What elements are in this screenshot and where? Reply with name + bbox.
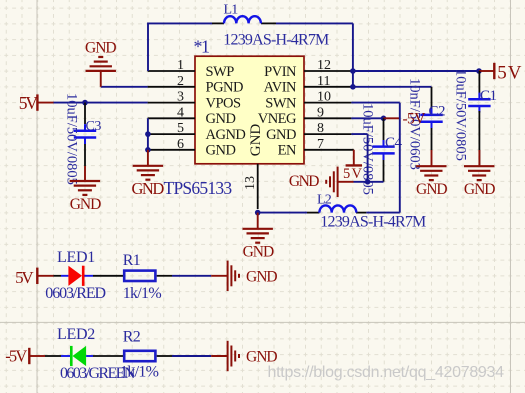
U1 rotated GND label (pin 13 name) (248, 124, 264, 157)
svg-text:V: V (352, 166, 363, 182)
svg-text:-5V: -5V (5, 347, 27, 366)
LED1 diode (68, 266, 83, 286)
svg-text:1k/1%: 1k/1% (120, 363, 159, 380)
svg-text:GND: GND (206, 143, 236, 159)
svg-text:GND: GND (248, 124, 264, 157)
ground C3 (70, 181, 100, 195)
L2 value 1239AS-H-4R7M (320, 213, 426, 230)
LED2 diode (71, 346, 86, 366)
power 5V left (37, 94, 53, 110)
svg-text:1239AS-H-4R7M: 1239AS-H-4R7M (320, 213, 426, 230)
svg-text:L1: L1 (224, 2, 239, 17)
ground LED2 (228, 341, 239, 371)
svg-text:V: V (508, 63, 522, 84)
svg-text:1: 1 (177, 58, 184, 73)
svg-text:9: 9 (317, 105, 324, 120)
pin 1 (148, 58, 195, 73)
U1 part name TPS65133 (164, 178, 233, 198)
gnd stem pins 4-6 (147, 150, 149, 166)
svg-text:8: 8 (317, 121, 324, 136)
svg-text:https://blog.csdn.net/qq_42078: https://blog.csdn.net/qq_42078934 (268, 364, 505, 381)
ground C1 (464, 166, 494, 180)
svg-text:C1: C1 (480, 88, 497, 104)
node C3 tap (82, 100, 88, 106)
R1 value 1k/1% (123, 285, 162, 302)
capacitor C3 (74, 124, 96, 144)
node pin12 (350, 68, 356, 74)
pin 10 (304, 90, 351, 105)
svg-text:GND: GND (132, 179, 165, 198)
watermark (268, 364, 505, 381)
wire pin1 to top rail (148, 23, 213, 72)
pin 3 (148, 90, 195, 105)
GND label C2 (416, 181, 447, 198)
ground pin13 (243, 229, 273, 243)
power -5V stem (384, 117, 400, 119)
svg-text:GND: GND (246, 348, 277, 365)
wire PVIN rail (353, 70, 479, 72)
svg-text:PVIN: PVIN (264, 64, 297, 80)
svg-text:1239AS-H-4R7M: 1239AS-H-4R7M (223, 31, 329, 48)
C3 gnd stem (84, 166, 86, 181)
svg-text:GND: GND (266, 127, 296, 143)
C3 designator (86, 119, 102, 134)
svg-text:5: 5 (177, 121, 184, 136)
gnd stem EN area (338, 181, 354, 183)
wire L2 to pin13 (258, 212, 307, 214)
resistor R2 (124, 351, 155, 361)
pin 5 (148, 121, 195, 136)
5 V label at EN (343, 166, 363, 182)
-5V label LED2 (5, 347, 27, 366)
wire pin9 VNEG (351, 117, 383, 119)
svg-text:GND: GND (70, 196, 101, 213)
svg-text:GND: GND (289, 173, 319, 190)
wire SWN (351, 103, 399, 213)
svg-text:*1: *1 (194, 37, 210, 57)
wire LED1 to R1 (84, 275, 123, 277)
wire R1 to gnd (157, 275, 212, 277)
L2 designator (317, 192, 332, 207)
gnd stem LED2 (211, 355, 227, 357)
svg-text:SWP: SWP (206, 64, 235, 80)
U1 designator *1 (194, 37, 210, 57)
node pin11 (350, 84, 356, 90)
svg-text:C3: C3 (86, 119, 102, 134)
svg-text:10: 10 (317, 90, 331, 105)
inductor L1 (224, 16, 261, 23)
svg-text:EN: EN (278, 143, 297, 159)
5 V label top right (497, 63, 522, 84)
5V label left (19, 93, 39, 113)
svg-text:2: 2 (177, 74, 184, 89)
GND label C1 (464, 181, 495, 198)
power 5V top right (479, 63, 494, 79)
node C1 tap (476, 68, 482, 74)
inductor L2 leads (307, 212, 366, 214)
svg-text:3: 3 (177, 90, 184, 105)
LED1 value 0603/RED (45, 285, 105, 302)
svg-text:4: 4 (177, 105, 184, 120)
ground EN area (326, 167, 337, 197)
R2 value 1k/1% (120, 363, 159, 380)
wire 5V to LED1 (54, 275, 69, 277)
svg-text:LED1: LED1 (57, 249, 95, 266)
C2 lower pin (431, 128, 433, 150)
svg-text:GND: GND (246, 268, 277, 285)
pin 11 (304, 74, 351, 89)
svg-text:11: 11 (317, 74, 330, 89)
svg-text:R2: R2 (123, 329, 141, 346)
GND label EN area (289, 173, 319, 190)
wire LED2 to R2 (86, 355, 123, 357)
wire AVIN link (352, 71, 354, 87)
svg-text:5V: 5V (19, 93, 39, 113)
ground pins 4-6 (133, 166, 163, 180)
wire pins 4-6 (147, 118, 149, 150)
inductor L2 (319, 205, 356, 212)
pin 6 (148, 137, 195, 152)
svg-text:5: 5 (497, 63, 507, 84)
GND label pins 4-6 (132, 179, 165, 198)
capacitor C2 (420, 108, 442, 128)
svg-text:10uF/50V/0805: 10uF/50V/0805 (64, 93, 80, 185)
pin 2 (148, 74, 195, 89)
LED2 designator (57, 326, 95, 343)
wire C4 gnd run (354, 181, 384, 183)
GND label C3 (70, 196, 101, 213)
node pin5 (145, 131, 151, 137)
wire -5V to LED2 (45, 355, 70, 357)
capacitor C1 (468, 93, 490, 113)
-5V label (403, 111, 427, 128)
R1 designator (123, 252, 141, 269)
R2 designator (123, 329, 141, 346)
wire pin3 (54, 102, 148, 104)
svg-text:1k/1%: 1k/1% (123, 285, 162, 302)
svg-text:10uF/50V/0805: 10uF/50V/0805 (453, 69, 469, 161)
L1 designator (224, 2, 239, 17)
pin 4 (148, 105, 195, 120)
inductor L1 leads (212, 22, 276, 24)
pin 9 (304, 105, 351, 120)
C2 value 10nF/50V/0603 (407, 78, 423, 170)
node pin13 (255, 210, 261, 216)
C3 value (64, 93, 80, 185)
op-amp U1 body (TPS65133) (195, 56, 304, 164)
C1 lower pin (478, 111, 480, 166)
C1 gnd stem (478, 150, 480, 166)
svg-text:GND: GND (416, 181, 447, 198)
ground C2 (416, 166, 446, 180)
svg-text:0603/RED: 0603/RED (45, 285, 105, 302)
pin 7 (304, 137, 354, 152)
C4 value (360, 103, 376, 195)
5V label LED1 (15, 268, 34, 287)
svg-text:13: 13 (243, 176, 258, 190)
svg-text:C2: C2 (429, 104, 446, 120)
pin 13 (257, 164, 259, 209)
svg-text:L2: L2 (317, 192, 332, 207)
gnd stem LED1 (211, 275, 227, 277)
svg-text:GND: GND (206, 111, 236, 127)
node pin6 (145, 147, 151, 153)
ground pin2 (flipped) (86, 57, 116, 71)
power 5V LED1 (37, 268, 53, 284)
wire L1 to PVIN column (276, 23, 353, 71)
resistor R1 (124, 271, 155, 281)
power 5V at EN (346, 150, 362, 166)
wire pin2 (101, 86, 148, 88)
wire R2 to gnd (157, 355, 212, 357)
pin 13 number (243, 176, 258, 190)
C4 lower pin (383, 160, 385, 182)
C2 designator (429, 104, 446, 120)
svg-text:R1: R1 (123, 252, 141, 269)
svg-text:VPOS: VPOS (206, 95, 242, 111)
L1 value 1239AS-H-4R7M (223, 31, 329, 48)
pin 12 (304, 58, 351, 73)
pin 8 (304, 121, 351, 136)
GND label LED1 (246, 268, 277, 285)
wire pin8 down (351, 134, 367, 182)
wire AVIN to C2 (353, 87, 432, 109)
svg-text:GND: GND (85, 39, 116, 56)
C3 lower pin (84, 144, 86, 166)
svg-text:5: 5 (343, 166, 350, 182)
svg-text:7: 7 (317, 137, 324, 152)
C4 upper pin (383, 118, 385, 140)
GND label pin13 (243, 244, 274, 261)
C2 gnd stem (431, 150, 433, 166)
svg-text:PGND: PGND (206, 80, 244, 96)
U1 left pin labels (206, 64, 246, 159)
node pin8 gnd tee (365, 179, 371, 185)
svg-text:12: 12 (317, 58, 331, 73)
capacitor C4 (372, 140, 394, 160)
GND label LED2 (246, 348, 277, 365)
power -5V LED2 (29, 348, 45, 364)
node C4 top (381, 116, 387, 122)
C3 upper pin (84, 103, 86, 124)
svg-text:LED2: LED2 (57, 326, 95, 343)
svg-text:TPS65133: TPS65133 (164, 178, 233, 198)
LED2 value 0603/GREEN (60, 365, 136, 382)
C1 value (453, 69, 469, 161)
svg-text:GND: GND (464, 181, 495, 198)
U1 right pin labels (258, 64, 297, 159)
pin13 gnd stem (257, 213, 259, 229)
svg-text:6: 6 (177, 137, 184, 152)
wire 5V to C1 (478, 71, 480, 94)
C4 designator (385, 135, 403, 151)
svg-text:-5V: -5V (403, 111, 427, 128)
svg-text:AVIN: AVIN (264, 80, 297, 96)
svg-text:SWN: SWN (265, 95, 297, 111)
svg-text:GND: GND (243, 244, 274, 261)
ground LED1 (228, 261, 239, 291)
LED1 designator (57, 249, 95, 266)
gnd stem pin2 (100, 71, 102, 87)
GND label pin2 (85, 39, 116, 56)
C1 designator (480, 88, 497, 104)
svg-text:AGND: AGND (206, 127, 246, 143)
